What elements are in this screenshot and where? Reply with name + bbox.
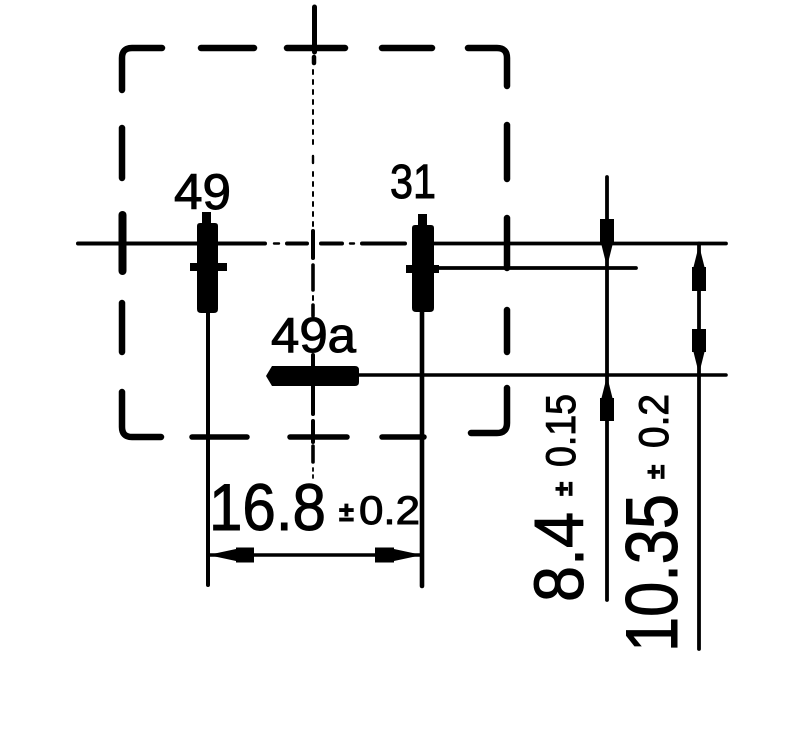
lead line below terminal 49 / dimension extension	[206, 313, 210, 585]
extension line from pin 31 flange (8.4 reference)	[434, 266, 636, 270]
terminal 49a blade (horizontal)	[266, 366, 359, 386]
horizontal centerline through pins 49 and 31 (dash-dot)	[78, 242, 405, 246]
dashed outline: relay body bottom edge	[192, 434, 424, 440]
svg-text:49: 49	[174, 164, 231, 220]
dimension line for 10.35 (vertical, arrows inside)	[697, 244, 701, 650]
terminal 49 blade	[190, 212, 227, 313]
svg-text:49a: 49a	[271, 309, 357, 363]
dashed outline: relay body right edge	[471, 125, 507, 433]
svg-text:±: ±	[339, 497, 354, 527]
svg-text:16.8: 16.8	[209, 470, 326, 544]
terminal 31 blade	[406, 214, 439, 312]
lead line below terminal 31 / dimension extension	[420, 312, 425, 586]
extension line from terminal 49a to right	[357, 373, 726, 377]
dimension line for 8.4 (vertical, arrows outside)	[605, 177, 609, 600]
svg-text:0.15: 0.15	[537, 394, 584, 467]
svg-text:10.35: 10.35	[612, 494, 693, 652]
svg-text:±: ±	[548, 482, 578, 496]
svg-text:8.4: 8.4	[520, 512, 598, 602]
dashed outline: relay body left edge	[122, 128, 161, 437]
extension line from pin row centerline to right (10.35 reference)	[430, 242, 726, 246]
svg-text:0.2: 0.2	[630, 394, 677, 448]
vertical centerline (dash-dot)	[313, 7, 315, 480]
svg-text:0.2: 0.2	[359, 489, 420, 533]
svg-text:±: ±	[640, 465, 670, 479]
svg-text:31: 31	[390, 156, 436, 209]
dimension line 16.8 with arrows	[208, 553, 422, 556]
dashed outline: relay body top edge	[122, 48, 507, 90]
